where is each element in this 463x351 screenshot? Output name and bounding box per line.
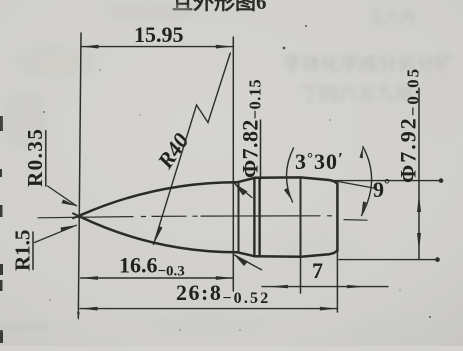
left extension line bottom tail [77, 312, 79, 321]
end dot phi7.92 bottom line [435, 257, 440, 262]
dimension texts [11, 22, 423, 307]
upper ogive curve [81, 182, 238, 215]
arrowhead 15.95 right [216, 45, 233, 49]
arrowhead 9deg arc top [360, 146, 363, 158]
9 deg slant reference line [330, 180, 374, 188]
R40 leader with zigzag [154, 53, 231, 245]
phi7.92 bottom extension line [339, 259, 437, 261]
tip crossing stubs [73, 213, 81, 218]
arrowhead 16.6 right [216, 276, 233, 280]
bleed-through text band 2 [300, 8, 416, 105]
boattail extension line for 7 dim [300, 257, 302, 293]
3deg30 angle arc [286, 148, 293, 202]
arrowhead phi7.82 bottom (diagonal tail) [234, 255, 248, 267]
arrowhead 7 right (pointing right) [347, 285, 366, 288]
centerline (dash-dot axis) [38, 216, 367, 220]
smudge bottom left [0, 322, 48, 331]
left extension line (through tip) [78, 33, 81, 318]
svg-text:R1.5: R1.5 [11, 230, 35, 271]
arrowhead R1.5 leader [61, 225, 78, 231]
speckles [43, 25, 431, 331]
arrowhead R40 [154, 226, 163, 245]
body top edge with 3deg30 taper and 9deg boattail [238, 177, 338, 184]
base extension line [336, 183, 338, 312]
body bottom edge [238, 250, 338, 256]
arrowhead 7 left (pointing left) [267, 285, 288, 288]
end dot phi7.92 top line [439, 178, 444, 183]
lower ogive curve [81, 217, 238, 252]
arrowhead 9deg arc bottom [361, 202, 366, 217]
R0.35 leader [48, 186, 77, 206]
phi7.92 dimension/underline line [418, 88, 420, 259]
svg-text:五九两: 五九两 [368, 8, 416, 26]
dimension line 26.8 [80, 308, 337, 310]
dimension line 7 [262, 286, 388, 288]
svg-text:R0.35: R0.35 [23, 128, 47, 187]
svg-text:3°30′: 3°30′ [295, 149, 344, 174]
R0.35 underline [45, 131, 47, 187]
arrowhead R0.35 leader [62, 200, 78, 207]
phi7.82 top diagonal tail line [0, 0, 1, 1]
phi7.82 arrow diagonal tails [235, 184, 262, 270]
ogive-body junction edge [238, 183, 240, 253]
R1.5 leader [35, 225, 77, 242]
dimension line 16.6 [81, 277, 234, 279]
dimension line 15.95 [81, 46, 233, 48]
boattail junction line [300, 178, 302, 257]
arrowhead 16.6 left [81, 276, 98, 280]
bullet base edge [336, 184, 339, 252]
arrowhead 3deg30 arc bottom [284, 188, 292, 201]
arrowhead phi7.82 top (diagonal tail) [234, 183, 248, 196]
svg-text:丁四六五九组: 丁四六五九组 [300, 83, 414, 105]
9 deg angle arc [362, 147, 372, 216]
right extension line at ogive junction (phi7.82 dim line) [232, 37, 234, 291]
svg-text:15.95: 15.95 [134, 22, 184, 47]
arrowhead 26.8 left [81, 307, 98, 311]
partial chinese title clipped at top [172, 0, 267, 14]
left edge text fragments [0, 116, 3, 343]
phi7.82 underline [260, 120, 262, 179]
bleed-through text band 1 [283, 53, 454, 75]
arrowhead 15.95 left [82, 45, 99, 49]
arrowhead phi7.92 lower [417, 233, 421, 251]
phi7.92 top extension line [333, 180, 441, 182]
arrowhead 26.8 right [320, 307, 337, 311]
cannelure line 2 [258, 178, 260, 257]
svg-text:7: 7 [312, 258, 323, 283]
arrowhead phi7.92 upper [417, 194, 421, 212]
R1.5 underline [32, 232, 34, 270]
cannelure line 1 [253, 178, 255, 257]
